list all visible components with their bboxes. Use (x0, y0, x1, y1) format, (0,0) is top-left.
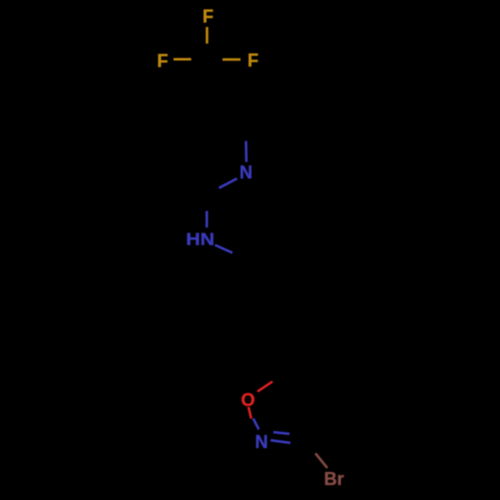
svg-text:N: N (240, 163, 253, 183)
bond C2-N(H) (N half) (206, 211, 209, 228)
bond N1-C6 pyridine (N half) (245, 141, 248, 162)
svg-text:F: F (203, 7, 214, 27)
bond O1-C5 isoxazole (O half) (258, 382, 273, 392)
svg-text:N: N (255, 432, 268, 452)
bond O1-N2 isoxazole (N half) (253, 419, 259, 430)
bond O1-N2 isoxazole (O half) (249, 407, 252, 419)
bond C-F right (F half) (223, 58, 241, 61)
bond C-F left (F half) (174, 58, 192, 61)
svg-text:F: F (157, 51, 168, 71)
bond N1-C2 pyridine (N half) (219, 179, 237, 189)
bond C-F top (F half) (206, 27, 209, 44)
bond N2=C3 isoxazole main line (N half) (271, 440, 291, 443)
bond C3-Br (Br half) (315, 453, 327, 468)
svg-text:HN: HN (186, 229, 214, 249)
bond N2=C3 isoxazole inner line (N half) (273, 432, 289, 434)
bond N(H)-CH2 (N half) (215, 245, 232, 253)
svg-text:Br: Br (324, 469, 344, 489)
svg-text:F: F (248, 51, 259, 71)
svg-text:O: O (241, 390, 255, 410)
